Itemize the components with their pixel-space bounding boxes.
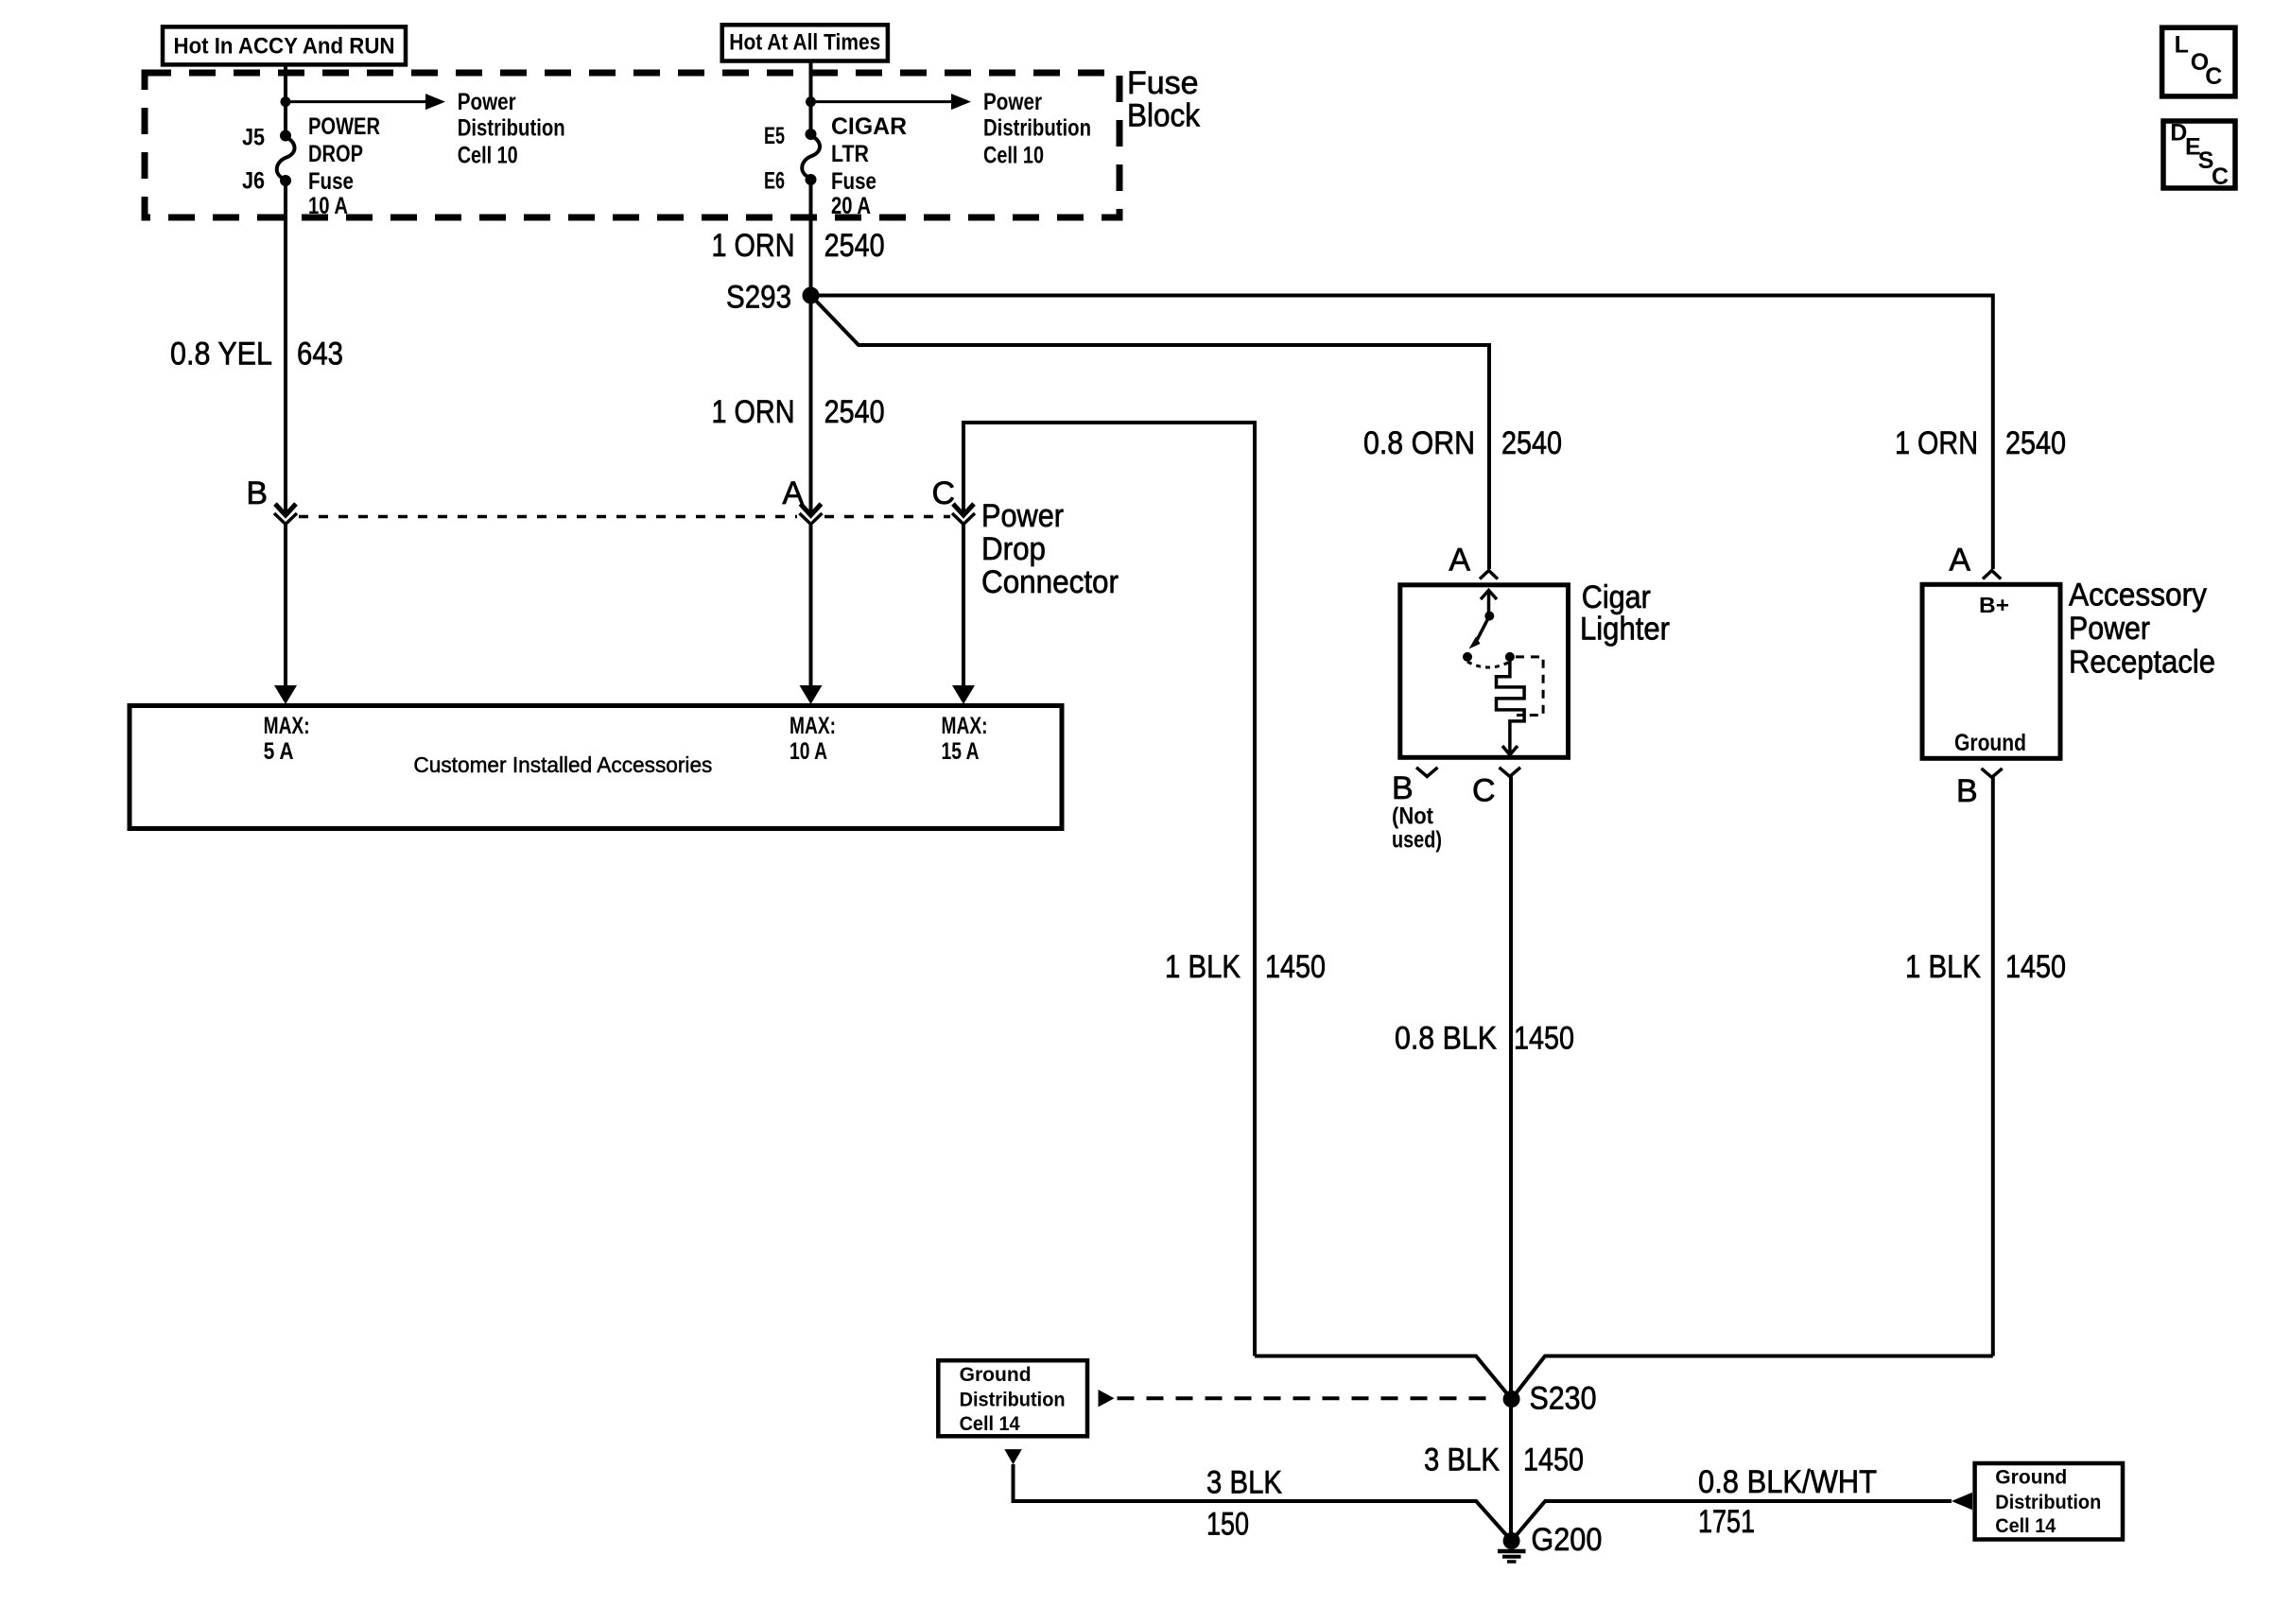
arrowhead into customer box (C) xyxy=(952,685,975,704)
svg-text:S293: S293 xyxy=(726,280,791,316)
svg-text:A: A xyxy=(1949,543,1970,579)
ground distribution cell 14 box (left) xyxy=(938,1360,1087,1436)
arrow into right ground box xyxy=(1952,1493,1972,1510)
svg-text:1450: 1450 xyxy=(1514,1021,1574,1057)
heating element xyxy=(1497,657,1525,753)
svg-text:1 ORN: 1 ORN xyxy=(712,228,795,264)
cigar connector B chevron xyxy=(1416,768,1438,777)
J5 dot xyxy=(280,130,291,142)
fuse CIGAR LTR symbol (squiggle E5-E6) xyxy=(802,136,820,178)
receptacle connector B chevron xyxy=(1982,769,2003,777)
wire label 1 ORN 2540 (below S293) xyxy=(712,394,885,430)
fuse block boundary (dashed) xyxy=(145,73,1119,217)
svg-text:1450: 1450 xyxy=(2005,949,2066,985)
svg-text:1 BLK: 1 BLK xyxy=(1905,949,1981,985)
svg-text:Distribution: Distribution xyxy=(458,115,565,142)
svg-text:B: B xyxy=(1392,770,1414,806)
svg-text:1751: 1751 xyxy=(1698,1504,1755,1540)
wire label 0.8 YEL 643 xyxy=(170,336,343,371)
svg-text:Power: Power xyxy=(458,89,516,115)
wire: merge right into S230 xyxy=(1512,1356,1993,1400)
svg-text:Receptacle: Receptacle xyxy=(2069,645,2215,681)
svg-text:Power: Power xyxy=(2069,611,2150,647)
svg-text:Fuse: Fuse xyxy=(831,168,876,195)
svg-text:2540: 2540 xyxy=(824,228,885,264)
connector C male arrow xyxy=(953,504,974,515)
ground distribution cell 14 box (right) xyxy=(1975,1463,2123,1540)
svg-text:CIGAR: CIGAR xyxy=(831,113,907,140)
svg-text:10 A: 10 A xyxy=(789,738,827,765)
connector B male arrow xyxy=(275,504,296,515)
cigar contact dot right xyxy=(1505,652,1515,662)
svg-text:E6: E6 xyxy=(764,167,785,194)
wire: E6 down to S293 xyxy=(809,180,813,296)
svg-text:Cell 14: Cell 14 xyxy=(960,1413,1020,1435)
wire: cigar C down to S230/G200 xyxy=(1509,777,1513,1542)
ground symbol G200 xyxy=(1498,1551,1526,1562)
svg-text:A: A xyxy=(782,475,804,511)
cigar switch arrow up xyxy=(1481,590,1497,616)
arrow down from left ground box xyxy=(1004,1449,1022,1464)
wire label 1 ORN 2540 (above S293) xyxy=(712,228,885,264)
wire: left ground branch xyxy=(1014,1464,1512,1541)
svg-text:MAX:: MAX: xyxy=(789,713,836,739)
svg-text:Cell 10: Cell 10 xyxy=(983,142,1044,168)
svg-text:Cigar: Cigar xyxy=(1582,579,1651,615)
cigar switch pivot dot xyxy=(1484,612,1494,621)
connector A female chevron xyxy=(800,513,823,525)
wire label 3 BLK 150 xyxy=(1206,1464,1282,1542)
wire: B to customer accessories xyxy=(284,525,287,691)
svg-text:1450: 1450 xyxy=(1523,1443,1584,1478)
svg-text:MAX:: MAX: xyxy=(942,713,988,739)
note Power Distribution Cell 10 (left) xyxy=(458,89,565,168)
E6 dot xyxy=(806,174,817,185)
svg-text:B: B xyxy=(1956,773,1978,809)
wire: right feed from Hot At All Times down to E5 xyxy=(809,61,813,135)
wire: C branch loop to ground splice xyxy=(963,423,1255,1356)
svg-text:20 A: 20 A xyxy=(831,193,871,219)
svg-text:2540: 2540 xyxy=(824,394,885,430)
svg-text:Fuse: Fuse xyxy=(1127,65,1199,101)
svg-text:Lighter: Lighter xyxy=(1580,612,1670,648)
svg-text:LTR: LTR xyxy=(831,141,869,167)
svg-text:10 A: 10 A xyxy=(308,193,348,219)
connector A male arrow xyxy=(801,504,822,515)
wire label 0.8 ORN 2540 xyxy=(1363,425,1562,461)
dashed line ground distribution to S230 xyxy=(1118,1396,1496,1400)
wire label 1 BLK 1450 (right) xyxy=(1905,949,2066,985)
svg-text:15 A: 15 A xyxy=(942,738,980,765)
receptacle connector A chevron xyxy=(1983,571,2001,579)
fuse POWER DROP symbol (squiggle J5-J6) xyxy=(277,137,295,179)
splice S293 dot xyxy=(803,287,820,304)
svg-text:Block: Block xyxy=(1127,98,1201,134)
element output arrow xyxy=(1502,746,1518,755)
fuse name CIGAR LTR Fuse 20 A xyxy=(831,113,907,219)
DESC reference box xyxy=(2163,120,2235,190)
svg-text:Cell 14: Cell 14 xyxy=(1995,1515,2056,1537)
dashed contact arc xyxy=(1467,662,1510,667)
header box Hot In ACCY And RUN xyxy=(163,26,406,64)
wire label 1 BLK 1450 (left) xyxy=(1165,949,1326,985)
svg-text:2540: 2540 xyxy=(2005,425,2066,461)
customer installed accessories box xyxy=(130,706,1062,829)
svg-text:L: L xyxy=(2175,32,2189,59)
svg-text:G200: G200 xyxy=(1531,1522,1602,1558)
svg-text:Fuse: Fuse xyxy=(308,168,354,195)
LOC reference box xyxy=(2162,27,2235,96)
svg-text:2540: 2540 xyxy=(1501,425,1562,461)
svg-text:C: C xyxy=(1472,773,1496,809)
svg-text:Distribution: Distribution xyxy=(960,1390,1066,1411)
svg-text:Customer Installed Accessories: Customer Installed Accessories xyxy=(413,752,712,777)
svg-text:Drop: Drop xyxy=(981,531,1046,567)
svg-text:Distribution: Distribution xyxy=(983,115,1091,142)
ground G200 dot xyxy=(1503,1532,1520,1549)
wire: right ground branch xyxy=(1512,1501,1952,1541)
junction dot left feed xyxy=(281,96,291,107)
svg-text:DROP: DROP xyxy=(308,141,363,167)
svg-text:Connector: Connector xyxy=(981,564,1119,600)
wire: S293 to A connector xyxy=(809,296,813,515)
label MAX: 10 A xyxy=(789,713,836,765)
power drop connector dashed line (right part) xyxy=(824,515,950,519)
svg-text:Distribution: Distribution xyxy=(1995,1492,2101,1513)
note Power Distribution Cell 10 (right) xyxy=(983,89,1091,168)
splice S230 dot xyxy=(1503,1391,1520,1408)
svg-text:POWER: POWER xyxy=(308,113,380,140)
svg-text:5 A: 5 A xyxy=(264,738,294,765)
svg-text:J6: J6 xyxy=(242,167,265,194)
label MAX: 15 A xyxy=(942,713,988,765)
svg-text:643: 643 xyxy=(297,336,343,371)
label MAX: 5 A xyxy=(264,713,310,765)
cigar lighter box xyxy=(1400,585,1569,758)
cigar contact dot left xyxy=(1463,652,1472,662)
svg-text:1 ORN: 1 ORN xyxy=(1895,425,1978,461)
svg-text:Hot In ACCY And RUN: Hot In ACCY And RUN xyxy=(174,33,395,59)
svg-text:1450: 1450 xyxy=(1265,949,1326,985)
arrowhead into customer box (B) xyxy=(274,685,297,704)
wire label 0.8 BLK/WHT 1751 xyxy=(1698,1464,1877,1540)
svg-text:E5: E5 xyxy=(764,123,785,149)
svg-text:Ground: Ground xyxy=(1995,1467,2067,1489)
header box Hot At All Times xyxy=(722,25,888,60)
svg-text:J5: J5 xyxy=(242,125,265,151)
svg-text:C: C xyxy=(2205,63,2222,90)
accessory power receptacle box xyxy=(1922,584,2060,758)
wire: S293 horizontal to accessory receptacle branch xyxy=(811,296,1993,570)
cigar switch arm (diagonal with arrowhead) xyxy=(1469,616,1490,649)
svg-text:Power: Power xyxy=(983,89,1042,115)
arrowhead into customer box (A) xyxy=(800,685,823,704)
svg-text:0.8 YEL: 0.8 YEL xyxy=(170,336,272,371)
wire: J6 down to connector B xyxy=(284,181,287,514)
svg-text:S230: S230 xyxy=(1530,1381,1597,1417)
fuse block label xyxy=(1127,65,1201,134)
svg-text:Cell 10: Cell 10 xyxy=(458,142,518,168)
wire: C to customer accessories xyxy=(962,525,965,691)
power drop connector dashed line xyxy=(299,515,797,519)
svg-text:150: 150 xyxy=(1206,1507,1249,1543)
wire: A to customer accessories xyxy=(809,525,813,691)
svg-text:C: C xyxy=(931,475,955,511)
wire label 0.8 BLK 1450 xyxy=(1395,1021,1574,1057)
svg-text:0.8 BLK/WHT: 0.8 BLK/WHT xyxy=(1698,1464,1877,1500)
cigar connector C chevron xyxy=(1500,768,1521,777)
E5 dot xyxy=(806,129,817,140)
arrow to Power Distribution Cell 10 (left) xyxy=(286,94,445,110)
label Cigar Lighter xyxy=(1580,579,1670,648)
wire: merge left into S230 xyxy=(1255,1356,1512,1400)
svg-text:1 ORN: 1 ORN xyxy=(712,394,795,430)
svg-text:0.8 ORN: 0.8 ORN xyxy=(1363,425,1475,461)
svg-text:used): used) xyxy=(1392,827,1442,854)
svg-text:3 BLK: 3 BLK xyxy=(1206,1464,1282,1500)
cigar lighter connector A chevron xyxy=(1480,571,1498,579)
label Power Drop Connector xyxy=(981,498,1119,600)
wire: left feed from Hot In ACCY down to J5 xyxy=(284,64,287,136)
svg-text:MAX:: MAX: xyxy=(264,713,310,739)
wire label 3 BLK 1450 xyxy=(1424,1443,1584,1478)
arrow from ground distribution box xyxy=(1099,1390,1115,1407)
J6 dot xyxy=(280,175,291,186)
connector C female chevron xyxy=(952,513,975,525)
svg-text:C: C xyxy=(2212,164,2229,190)
wire: receptacle B down to ground splice xyxy=(1991,777,1995,1356)
svg-text:Ground: Ground xyxy=(960,1364,1032,1386)
arrow to Power Distribution Cell 10 (right) xyxy=(811,94,972,110)
junction dot right feed xyxy=(806,96,816,107)
note (Not used) xyxy=(1392,803,1442,854)
svg-text:(Not: (Not xyxy=(1392,803,1434,830)
svg-text:3 BLK: 3 BLK xyxy=(1424,1443,1500,1478)
wire label 1 ORN 2540 (right branch) xyxy=(1895,425,2066,461)
wire: S293 diagonal to cigar lighter branch xyxy=(811,296,1490,570)
svg-text:0.8 BLK: 0.8 BLK xyxy=(1395,1021,1497,1057)
svg-text:B+: B+ xyxy=(1979,593,2009,617)
svg-text:1 BLK: 1 BLK xyxy=(1165,949,1241,985)
thermal dashed bracket xyxy=(1516,657,1543,716)
fuse name POWER DROP Fuse 10 A xyxy=(308,113,380,219)
svg-text:Hot At All Times: Hot At All Times xyxy=(729,29,880,55)
svg-text:Power: Power xyxy=(981,498,1064,534)
svg-text:A: A xyxy=(1449,543,1470,579)
connector B female chevron xyxy=(274,513,297,525)
svg-text:Ground: Ground xyxy=(1954,730,2026,756)
svg-text:B: B xyxy=(246,475,268,511)
svg-text:Accessory: Accessory xyxy=(2069,578,2207,613)
label Accessory Power Receptacle xyxy=(2069,578,2215,681)
